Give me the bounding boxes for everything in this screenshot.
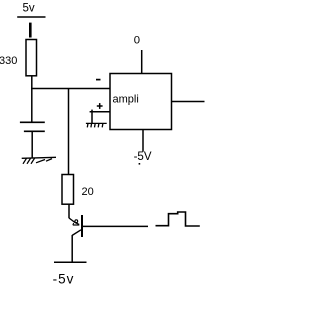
wire bus to capacitor — [31, 89, 33, 123]
capacitor C1 top plate — [20, 121, 45, 123]
svg-text:20: 20 — [82, 186, 94, 198]
wire base output — [82, 225, 148, 227]
waveform pulse symbol — [156, 212, 200, 226]
emitter arrow — [75, 220, 78, 223]
stray dot — [139, 163, 141, 165]
wire non-inverting input — [90, 111, 110, 113]
wire plus input to ground — [91, 110, 93, 124]
wire op-amp to -5V — [142, 130, 144, 152]
ground G1 — [22, 157, 56, 164]
pin label plus — [97, 103, 103, 109]
resistor 330 — [26, 40, 37, 76]
wire emitter diagonal — [69, 218, 75, 223]
svg-text:330: 330 — [0, 55, 17, 67]
wire bus to inverting input — [31, 88, 110, 90]
wire 0 to op-amp top — [141, 50, 143, 74]
wire op-amp output — [172, 101, 205, 103]
wire resistor 20 to transistor — [68, 204, 70, 218]
transistor Q1 — [72, 215, 82, 237]
op-amp U1 ampli box — [110, 74, 172, 130]
wire supply stub — [29, 23, 32, 38]
power rail bar 5v — [17, 16, 45, 18]
wire resistor to bus — [31, 76, 33, 89]
svg-text:ampli: ampli — [113, 94, 139, 106]
pin label minus — [96, 79, 101, 81]
base bar — [81, 215, 83, 237]
svg-text:-5V: -5V — [134, 151, 152, 163]
collector diagonal — [72, 230, 81, 236]
capacitor C1 bottom plate — [24, 130, 45, 132]
resistor 20 — [62, 175, 74, 205]
wire junction to resistor 20 — [68, 89, 70, 175]
svg-text:-5v: -5v — [53, 271, 75, 286]
svg-text:5v: 5v — [23, 3, 35, 15]
svg-text:0: 0 — [134, 35, 140, 47]
wire collector to -5v — [71, 235, 73, 262]
terminal bar -5v — [54, 261, 87, 263]
ground G2 — [86, 123, 107, 127]
wire capacitor to ground — [31, 131, 33, 158]
